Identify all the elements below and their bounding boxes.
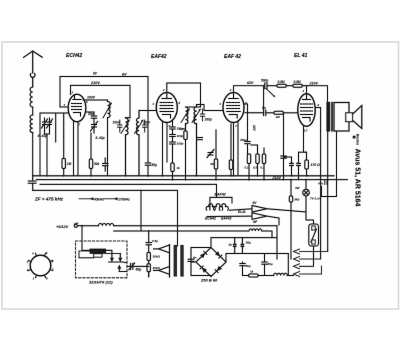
resistor 30k lower: [147, 264, 150, 276]
EL41 internal electrodes: [301, 94, 313, 121]
vibrator contact bus: [109, 262, 128, 272]
wire lamp line to switch: [306, 220, 314, 224]
heater loop ECH42: [206, 204, 215, 210]
wire: [32, 107, 34, 115]
wire: [39, 113, 41, 176]
transformer secondary winding line: [188, 248, 194, 276]
connector terminal arrow 3: [294, 264, 300, 269]
capacitor 50u near bus: [145, 160, 150, 176]
resistor below EAF42b left: [229, 124, 232, 176]
wire bottom junction line: [226, 253, 288, 255]
resistor 30k upper: [147, 253, 150, 264]
op tube EL41 envelope: [298, 94, 315, 127]
transformer primary contact arrow upper: [154, 245, 170, 253]
wire cathode EL41 down: [304, 127, 307, 153]
AF coupling capacitor 5n: [245, 110, 274, 116]
wire transformer secondary down: [322, 131, 337, 197]
wire tube bottom pin 2 to bus: [77, 122, 79, 176]
power transformer core: [174, 245, 184, 277]
value labels capacitor chain: [177, 127, 184, 146]
wire: [46, 134, 48, 176]
IFT1 tuning capacitor 100p: [118, 120, 123, 132]
wire AVC line: [251, 144, 258, 146]
vibrator buffer frame: [94, 254, 102, 258]
antenna: [24, 51, 43, 87]
vibrator diode contact left: [106, 250, 114, 262]
bus rail 3: [33, 190, 178, 246]
vibrator unit dashed box: [76, 241, 128, 278]
scanned page border frame: [2, 42, 399, 309]
wire bridge top riser: [210, 238, 212, 248]
oscillator coil with core: [103, 102, 112, 119]
wire resistor chain bottom: [148, 272, 150, 277]
wire secondary bottom to bridge: [191, 275, 211, 277]
capacitor 200p: [103, 158, 108, 171]
wire supply into box: [82, 226, 90, 251]
ground bus: [33, 175, 334, 177]
bus rail 4: [40, 184, 217, 197]
tube socket diagram circle: [30, 255, 51, 276]
IFT2 tuning arrow secondary: [192, 109, 201, 123]
speaker driver: [346, 113, 353, 122]
wire anode into IFT2: [186, 106, 201, 108]
capacitor mid right: [296, 152, 301, 179]
wire cathode elbow: [299, 151, 307, 153]
series capacitor 500p on rail: [265, 83, 277, 89]
trimmer near detector: [207, 150, 214, 158]
vibrator diode contact right: [106, 254, 122, 263]
IF transformer 1 secondary coil: [136, 111, 139, 176]
wire: [327, 131, 329, 252]
capacitor 160p AF: [245, 142, 250, 155]
socket tick marks: [28, 253, 52, 277]
output transformer core: [327, 102, 334, 132]
ECH42 internal electrodes: [72, 95, 83, 117]
pin number labels ECH42: [63, 91, 89, 127]
heater loop EAF42a: [214, 204, 223, 210]
connector terminal arrow 4: [294, 266, 322, 277]
210V anode rail top: [71, 85, 131, 117]
filter capacitor 50u lower left: [240, 262, 245, 276]
capacitor 50n right: [289, 157, 294, 176]
wire 14V line down: [247, 113, 249, 142]
pin number labels EL41: [302, 89, 320, 133]
wire: [55, 113, 57, 142]
output transformer winding box: [334, 103, 349, 132]
power switch: [309, 224, 319, 246]
pin number labels EAF42a: [152, 88, 181, 128]
vibrator coil solid: [90, 249, 106, 254]
pin number labels EAF42b: [218, 88, 247, 128]
EAF42 internal electrodes: [160, 93, 174, 119]
connector terminal arrow 1: [294, 249, 328, 254]
heater wiring block rectangle: [210, 197, 232, 210]
IF transformer 2 secondary coil: [194, 105, 197, 176]
wire filter feed line: [211, 237, 277, 239]
resistor grid leak R1: [62, 113, 65, 176]
resistor 1M ohm on lamp feed: [289, 180, 292, 259]
wire EAF42b diode pin to AF line: [244, 104, 248, 113]
bus rail 2: [37, 179, 348, 181]
supply connector: [74, 223, 77, 227]
trimmer capacitor oscillator: [91, 121, 98, 133]
wire cathode down: [233, 123, 235, 176]
socket pin numbers: [26, 251, 54, 281]
connector terminal arrow 2: [294, 257, 321, 262]
value labels cluster: [245, 166, 265, 170]
chassis capacitor below bus: [28, 176, 36, 191]
supply rail A with choke: [77, 224, 277, 260]
wire EL41 anode side: [315, 108, 320, 132]
resistor below IFT2: [184, 131, 187, 180]
switch contact on rail: [266, 89, 275, 97]
wire IFT1 secondary to EAF42 grid: [139, 110, 156, 112]
IFT1 tuning arrow secondary: [135, 120, 144, 134]
annotation arrow 170k: [103, 197, 118, 200]
wire nest verticals right: [320, 131, 322, 259]
wire tube bottom pins to bus: [162, 122, 164, 176]
transformer primary winding line: [169, 245, 171, 278]
wire secondary top to bridge: [191, 247, 211, 249]
6V heater rail top: [60, 77, 148, 118]
pilot lamp: [303, 180, 310, 220]
resistor R2: [89, 133, 92, 176]
IF transformer 2 primary coil: [186, 107, 189, 131]
op tube ECH42 envelope: [68, 94, 86, 122]
wire EAF42b anode top rail: [234, 86, 265, 93]
heater loop EAF42b: [219, 204, 228, 210]
supply rail B with choke: [114, 229, 272, 238]
resistor 0.5M horizontal second: [293, 84, 308, 87]
resistor 0.5M horizontal first: [277, 84, 293, 87]
filter capacitor 50u upper: [241, 238, 245, 254]
bridge rectifier 250 B 60: [196, 248, 226, 277]
resistor 1M grid EL41: [274, 111, 298, 114]
wire cathode pin down: [166, 123, 168, 163]
IFT1 tuning arrow primary: [121, 120, 130, 134]
junction dots on ground bus: [46, 175, 308, 232]
transformer primary contact arrow lower: [154, 267, 170, 275]
IF transformer 1 primary coil: [126, 118, 131, 176]
wire 6V rail drop: [147, 118, 149, 160]
wire anode top line to oscillator coil: [83, 100, 108, 102]
wire IFT2 secondary to EAF42b grid: [197, 105, 224, 111]
capacitor 30p: [91, 112, 96, 121]
trimmer capacitor input C1: [42, 118, 48, 131]
antenna coil L1: [30, 87, 33, 107]
vibrator wire loop left: [79, 251, 94, 258]
wire EL41 top pin: [306, 86, 308, 94]
wire NF down: [278, 218, 280, 225]
antenna coil L2: [30, 115, 33, 133]
brand dot: [353, 136, 356, 139]
resistor 170 ohm: [305, 152, 309, 176]
wire rail B riser: [140, 190, 142, 231]
heater connector arrow lower: [207, 213, 279, 220]
trimmer capacitor input C2: [47, 118, 53, 131]
capacitor 50u beside box: [127, 263, 149, 270]
wire rail to output transformer: [308, 86, 328, 103]
wire top of 1n to AF line: [283, 113, 285, 150]
resistor 1k bottom: [243, 274, 274, 277]
wire oscillator coil to bus: [107, 118, 109, 176]
wire choke output riser: [287, 254, 289, 276]
annotation arrow 45k: [79, 197, 94, 200]
wire antenna down to ground bus: [32, 133, 34, 176]
resistor 1M detector: [214, 130, 217, 180]
capacitor 47k small right: [325, 180, 327, 185]
volume control resistor cluster: [247, 145, 265, 180]
IFT1 secondary capacitor 100p: [143, 120, 148, 132]
IFT2 capacitor 160p: [200, 109, 205, 121]
filter capacitor 2u: [233, 238, 237, 254]
resistor below EAF42a: [171, 163, 174, 180]
bottom choke coil: [274, 273, 294, 275]
wire grid line input: [40, 112, 68, 114]
wire: [44, 131, 46, 134]
wire tube side to 30p: [86, 111, 94, 113]
op tube EAF42 first envelope: [156, 93, 177, 123]
capacitor 0.5u top of transformer lead: [146, 231, 151, 253]
wire 500p junction down to AF line: [263, 86, 265, 110]
wire tube bottom pins to bus: [237, 122, 239, 176]
EAF42b internal electrodes: [227, 93, 241, 119]
IFT2 tuning arrow primary: [181, 109, 190, 123]
wire heater to tube: [60, 106, 68, 108]
filter capacitor 50u lower right: [262, 254, 267, 276]
wire bridge right corner up: [225, 254, 227, 263]
heater connector arrow upper: [230, 206, 307, 213]
capacitor 1n below IFT2: [197, 138, 202, 140]
speaker cone: [353, 106, 362, 129]
capacitor chain right of EAF42a: [170, 120, 175, 163]
op tube EAF42 second envelope: [223, 93, 244, 123]
wire switch bottom down: [300, 246, 314, 266]
wire across tops: [284, 156, 292, 158]
capacitor 1n right cluster: [281, 150, 286, 180]
wire tube bottom pin to bus: [73, 121, 75, 176]
wire anode top to IFT2: [167, 83, 201, 107]
